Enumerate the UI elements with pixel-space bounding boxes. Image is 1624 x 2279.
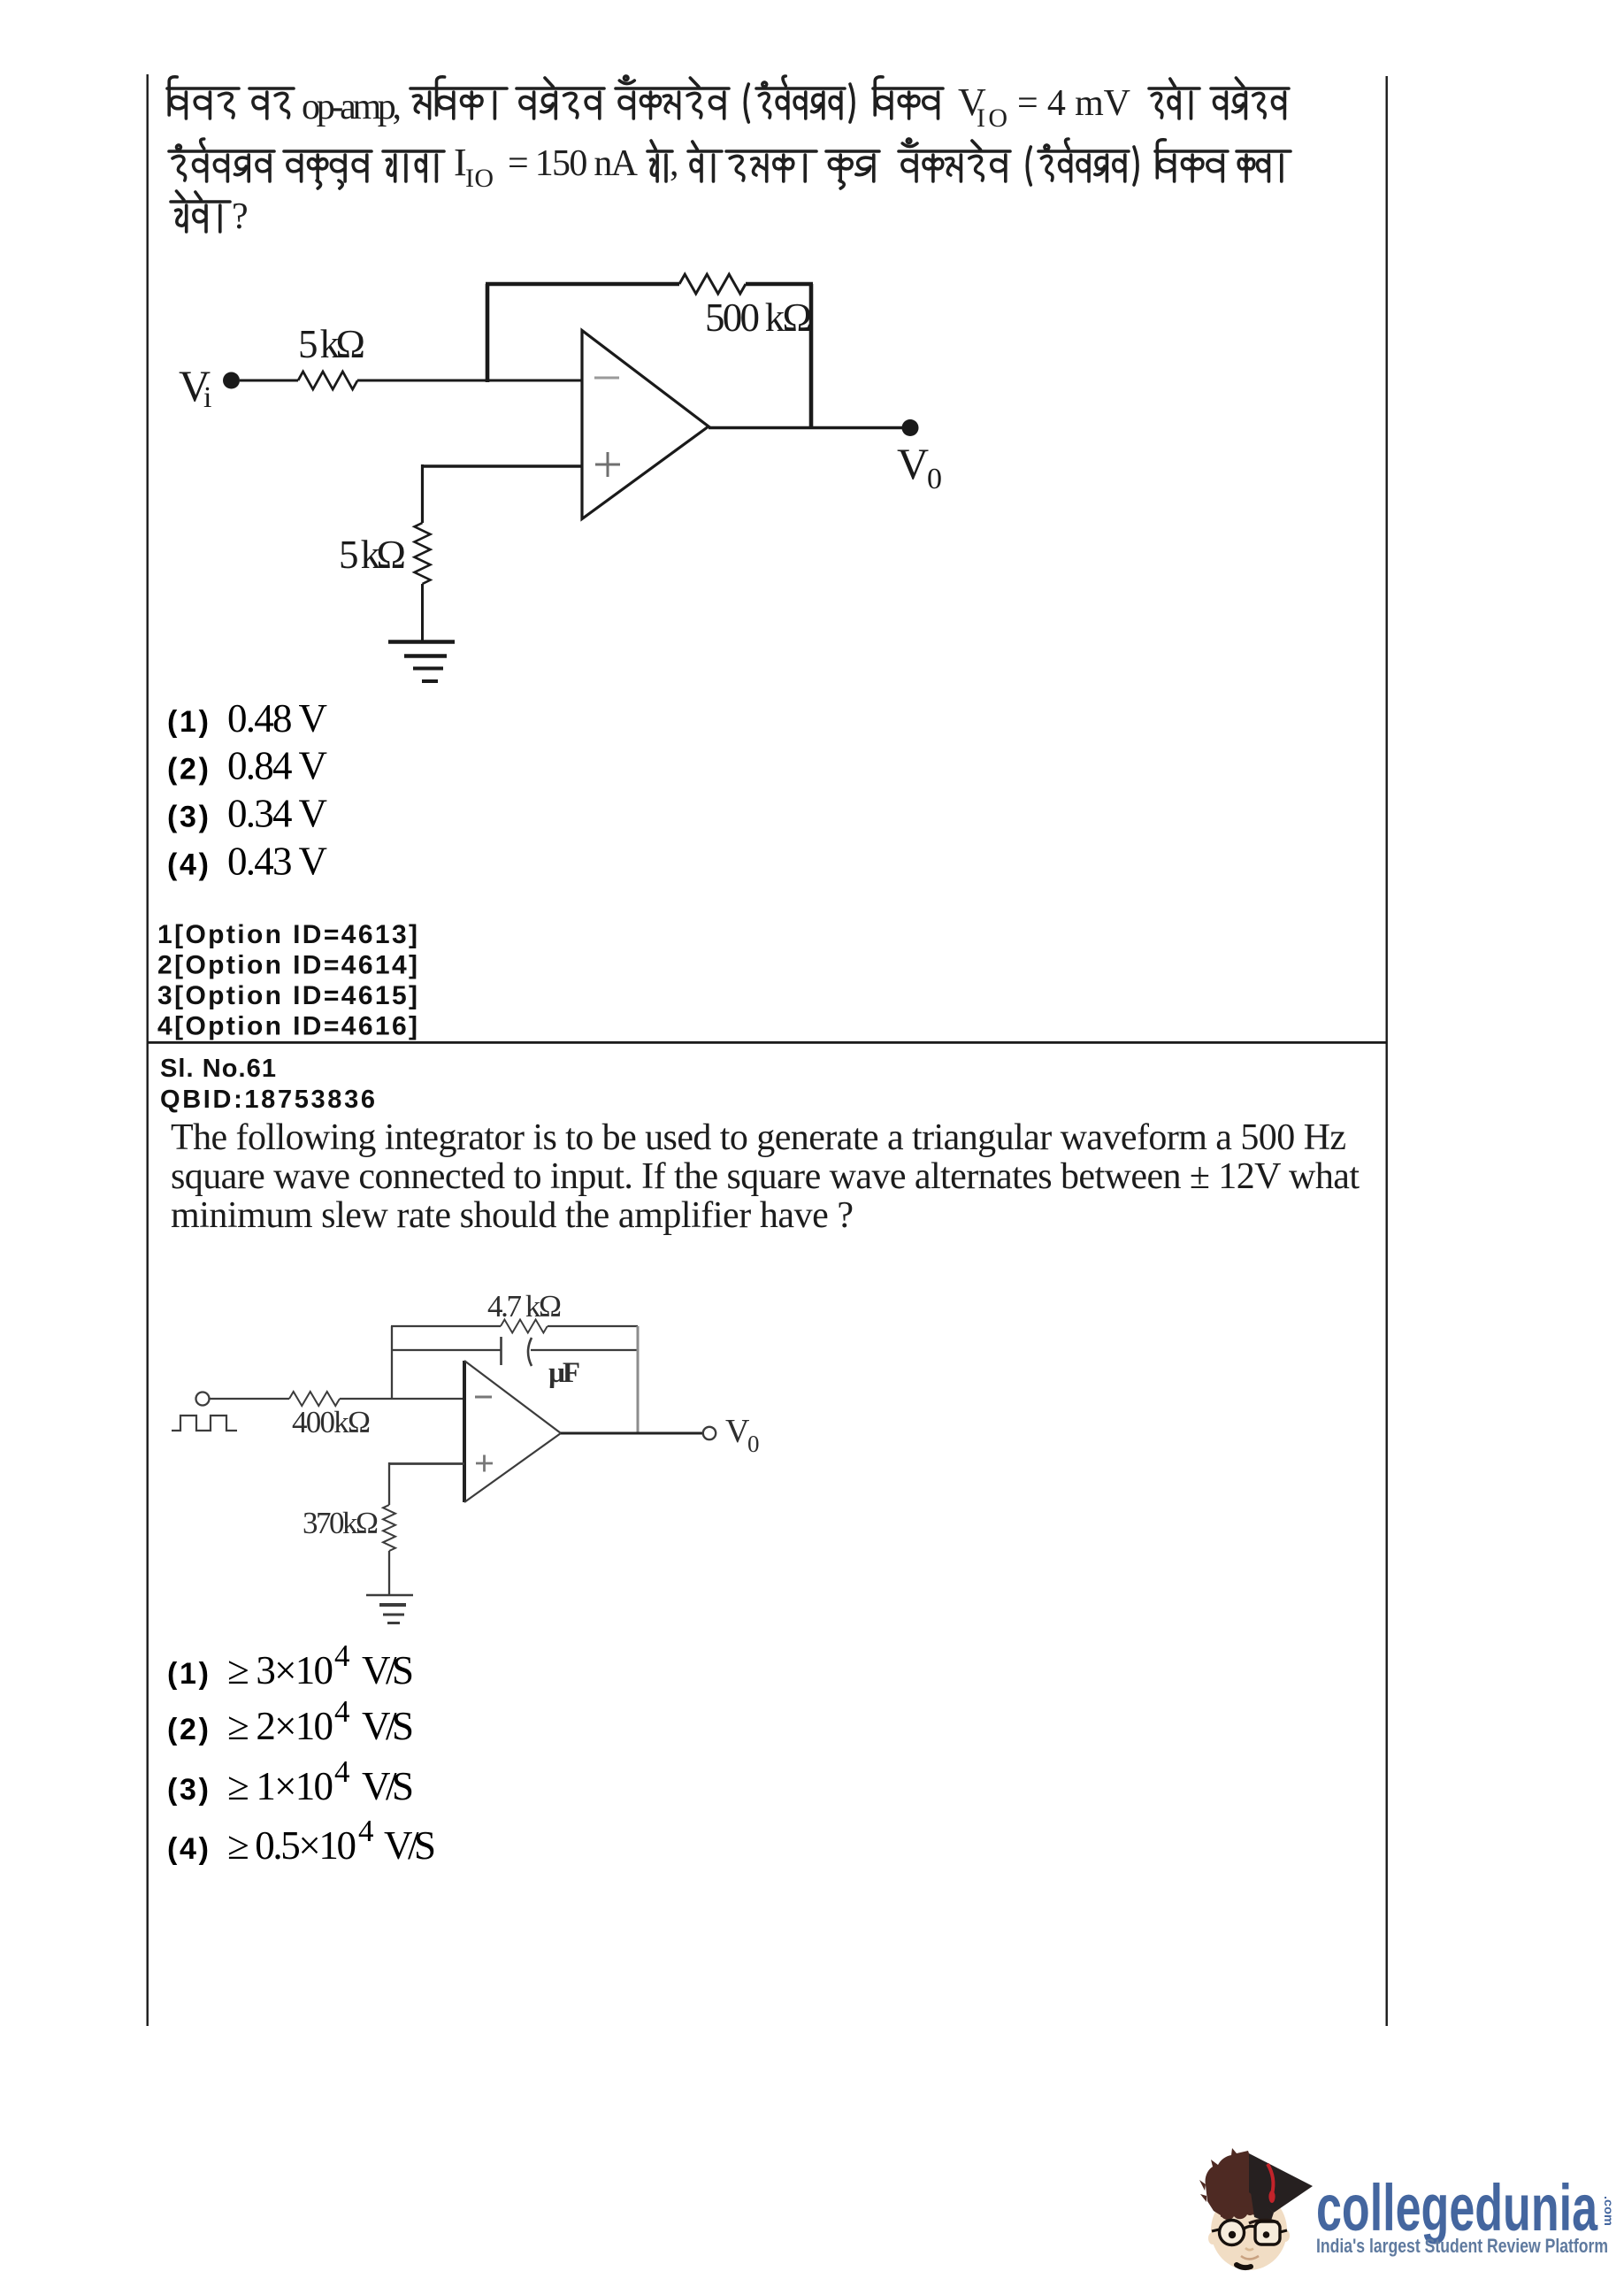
op-amp U2 plus sign	[476, 1455, 493, 1472]
section divider line	[147, 1041, 1388, 1044]
svg-text:op-amp,: op-amp,	[302, 87, 402, 127]
svg-text:V: V	[897, 439, 929, 488]
svg-text:(3): (3)	[167, 1773, 209, 1807]
svg-text:3[Option ID=4615]: 3[Option ID=4615]	[157, 981, 417, 1010]
svg-text:V/S: V/S	[362, 1704, 414, 1748]
hindi-paren-open2	[1027, 147, 1030, 185]
svg-text:collegedunia: collegedunia	[1316, 2171, 1598, 2244]
hindi-word-antarlab3	[1038, 139, 1129, 181]
wire R1 to inverting input	[357, 380, 582, 382]
ground symbol circuit 1	[388, 640, 455, 643]
svg-text:V/S: V/S	[362, 1648, 414, 1692]
op-amp U1 plus pin sign	[595, 452, 620, 477]
mascot right ear	[1281, 2229, 1290, 2242]
wire feedback top right segment	[746, 282, 813, 287]
option id lines	[157, 920, 417, 1041]
wire input to R4	[210, 1398, 289, 1400]
wire Vi to R1	[240, 380, 298, 382]
mascot glasses right lens	[1255, 2221, 1280, 2244]
svg-text:(2): (2)	[167, 753, 209, 787]
capacitor C1 right curved plate	[528, 1338, 532, 1366]
svg-text:0.48 V: 0.48 V	[227, 696, 327, 740]
mascot cap board	[1249, 2153, 1313, 2213]
svg-text:?: ?	[232, 196, 249, 237]
op-amp U2 triangle sides	[464, 1361, 561, 1502]
wire R3 to ground	[421, 584, 424, 641]
svg-text:4: 4	[358, 1814, 374, 1848]
svg-text:≥ 2×10: ≥ 2×10	[227, 1704, 333, 1748]
mascot collar mark	[1237, 2265, 1251, 2267]
svg-text:≥ 1×10: ≥ 1×10	[227, 1764, 333, 1808]
svg-text:4.7 kΩ: 4.7 kΩ	[487, 1289, 562, 1324]
hindi-word-kya	[1237, 151, 1291, 181]
mascot eyebrow	[1249, 2220, 1278, 2223]
node input terminal circle	[196, 1393, 210, 1406]
svg-text:4: 4	[334, 1754, 350, 1789]
wire op-amp output	[709, 426, 910, 430]
svg-text:4[Option ID=4616]: 4[Option ID=4616]	[157, 1012, 417, 1041]
hindi-word-nivesh1	[517, 78, 604, 119]
wire feedback top right segment	[548, 1325, 638, 1327]
mascot glasses left lens	[1220, 2221, 1245, 2245]
wire noninverting vertical	[388, 1462, 390, 1505]
hindi-word-aur	[1149, 79, 1199, 119]
svg-text:µF: µF	[548, 1357, 580, 1389]
wire feedback left vertical	[486, 284, 490, 382]
mascot cap skull part	[1251, 2192, 1274, 2223]
svg-text:QBID:18753836: QBID:18753836	[160, 1086, 375, 1114]
mascot hair spike left	[1199, 2180, 1207, 2202]
wire noninverting vertical to R3	[421, 464, 424, 523]
page frame left border	[147, 74, 149, 2026]
svg-text:(2): (2)	[167, 1713, 209, 1746]
resistor R3 5k vertical zigzag	[415, 523, 431, 584]
svg-text:5 kΩ: 5 kΩ	[298, 322, 365, 366]
svg-text:0.43 V: 0.43 V	[227, 840, 327, 884]
svg-text:0: 0	[927, 463, 942, 495]
op-amp U2 minus sign	[475, 1396, 492, 1399]
mascot hair	[1206, 2148, 1257, 2220]
wire feedback right vertical	[637, 1326, 640, 1433]
mascot fringe over forehead	[1221, 2206, 1256, 2217]
svg-text:= 4 mV: = 4 mV	[1017, 83, 1130, 124]
svg-text:≥ 3×10: ≥ 3×10	[227, 1648, 333, 1692]
resistor R1 5k input zigzag	[298, 372, 357, 389]
svg-text:0.84 V: 0.84 V	[227, 744, 327, 788]
wire feedback top left segment	[486, 282, 679, 287]
question 61 english text	[171, 1117, 1360, 1236]
svg-text:4: 4	[334, 1694, 350, 1729]
capacitor C1 left plate	[500, 1337, 502, 1365]
svg-text:Sl. No.61: Sl. No.61	[160, 1055, 276, 1083]
svg-text:,: ,	[670, 143, 679, 184]
hindi-word-nivesh2	[1211, 78, 1289, 119]
hindi-word-antarlab2	[169, 139, 274, 181]
svg-text:≥ 0.5×10: ≥ 0.5×10	[227, 1823, 356, 1868]
hindi-word-hai	[647, 141, 672, 181]
resistor R2 500k zigzag	[679, 274, 746, 294]
hindi-word-kul	[826, 151, 879, 188]
svg-text:i: i	[203, 381, 211, 414]
svg-text:.com: .com	[1602, 2196, 1616, 2226]
svg-text:IO: IO	[977, 104, 1007, 133]
hindi-paren-open1	[745, 84, 748, 122]
node Vo output dot	[902, 419, 919, 436]
hindi-paren-close1	[850, 84, 854, 122]
wire noninverting input horizontal	[423, 464, 583, 467]
svg-text:The following integrator is to: The following integrator is to be used t…	[171, 1117, 1346, 1158]
svg-text:(4): (4)	[167, 848, 209, 882]
svg-text:(1): (1)	[167, 1657, 209, 1691]
svg-text:0: 0	[747, 1431, 760, 1457]
hindi-word-hoga	[171, 191, 230, 232]
svg-text:minimum slew rate should the a: minimum slew rate should the amplifier h…	[171, 1195, 854, 1236]
wire capacitor branch right	[531, 1349, 638, 1351]
resistor R5 4.7k zigzag	[501, 1320, 548, 1333]
svg-text:1[Option ID=4613]: 1[Option ID=4613]	[157, 920, 417, 949]
hindi-word-dhara	[383, 151, 444, 181]
svg-text:(1): (1)	[167, 705, 209, 739]
svg-text:2[Option ID=4614]: 2[Option ID=4614]	[157, 951, 417, 980]
node Vi input dot	[223, 372, 240, 389]
hindi-word-antarlab1	[756, 76, 845, 119]
hindi-word-vidyut	[284, 151, 372, 188]
svg-text:square wave connected to input: square wave connected to input. If the s…	[171, 1156, 1360, 1197]
svg-text:0.34 V: 0.34 V	[227, 792, 327, 836]
wire feedback right vertical	[809, 284, 814, 428]
resistor R4 400k zigzag	[289, 1392, 340, 1406]
op-amp U2 left edge	[463, 1361, 466, 1502]
mascot face base	[1211, 2191, 1287, 2270]
mascot glasses bridge	[1245, 2226, 1256, 2229]
hindi-word-uska	[726, 151, 816, 181]
svg-text:400kΩ: 400kΩ	[292, 1405, 371, 1439]
hindi-word-offset1	[616, 76, 729, 119]
svg-text:500 kΩ: 500 kΩ	[705, 295, 812, 340]
svg-text:370kΩ: 370kΩ	[303, 1506, 379, 1540]
hindi-word-gaye	[249, 88, 294, 119]
hindi-word-diye	[167, 77, 239, 119]
page frame right border	[1386, 76, 1388, 2026]
svg-text:V: V	[725, 1413, 750, 1450]
latin fragments in hindi text	[232, 81, 1130, 237]
svg-text:V/S: V/S	[384, 1823, 436, 1868]
svg-text:5 kΩ: 5 kΩ	[339, 533, 406, 577]
hindi-word-jiska	[410, 77, 507, 119]
svg-text:(4): (4)	[167, 1832, 209, 1866]
hindi-paren-close2	[1134, 147, 1138, 185]
svg-text:IO: IO	[465, 164, 494, 193]
resistor R6 370k vertical zigzag	[383, 1505, 395, 1551]
mascot glasses temples	[1212, 2229, 1287, 2232]
svg-text:4: 4	[334, 1638, 350, 1673]
wire R6 to ground	[388, 1551, 390, 1595]
hindi-word-vibhav2	[1155, 140, 1228, 181]
square wave source symbol	[172, 1416, 237, 1431]
wire feedback top left segment	[391, 1325, 501, 1327]
svg-text:= 150 nA: = 150 nA	[508, 143, 639, 184]
mascot tassel	[1268, 2164, 1273, 2194]
hindi question text (stylised)	[167, 76, 1291, 232]
node Vo2 output circle	[703, 1427, 716, 1439]
wire op-amp2 output	[561, 1432, 703, 1435]
mascot nose	[1245, 2248, 1253, 2250]
svg-text:V/S: V/S	[362, 1764, 414, 1808]
svg-text:(3): (3)	[167, 801, 209, 834]
svg-text:India's largest Student Review: India's largest Student Review Platform	[1316, 2235, 1608, 2257]
wire capacitor branch left	[392, 1349, 501, 1351]
hindi-word-to	[688, 142, 722, 181]
ground symbol circuit 2	[366, 1594, 413, 1597]
wire R4 to inverting input	[340, 1398, 463, 1400]
hindi-word-vibhav1	[873, 77, 943, 119]
mascot pupils	[1229, 2231, 1236, 2238]
wire noninverting input horizontal	[389, 1462, 464, 1465]
op-amp U1 triangle	[582, 331, 709, 519]
mascot left ear	[1208, 2232, 1217, 2244]
wire feedback left vertical	[391, 1326, 393, 1399]
op-amp U1 minus pin sign	[594, 377, 619, 380]
hindi-word-offset2	[899, 139, 1010, 181]
mascot mouth	[1241, 2256, 1259, 2260]
